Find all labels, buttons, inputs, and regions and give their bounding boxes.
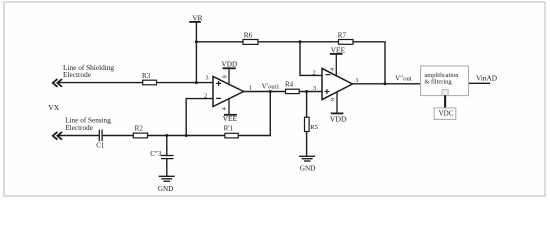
resistor R6 — [243, 30, 258, 44]
svg-text:R'1: R'1 — [224, 125, 234, 133]
svg-text:VinAD: VinAD — [476, 73, 497, 82]
wire to U1 pin2 — [186, 99, 213, 136]
svg-text:& filtering: & filtering — [424, 79, 452, 86]
capacitor C1 — [96, 130, 105, 150]
capacitor C"3 — [150, 150, 173, 158]
svg-text:8: 8 — [331, 98, 337, 101]
wire shielding line left — [57, 82, 143, 84]
svg-text:GND: GND — [158, 185, 174, 193]
svg-text:R5: R5 — [310, 124, 318, 131]
border frame — [4, 2, 545, 196]
wire C1 to R2 — [102, 135, 133, 137]
svg-text:R4: R4 — [285, 81, 294, 89]
svg-text:R2: R2 — [135, 124, 144, 132]
junction VR top net — [195, 40, 198, 43]
svg-text:V″out: V″out — [395, 75, 412, 83]
wire VR stem down to shield net — [195, 22, 197, 83]
svg-text:1: 1 — [355, 77, 358, 84]
svg-text:VX: VX — [48, 103, 59, 112]
junction R6 right / U2 pin2 branch — [299, 40, 302, 43]
resistor R4 — [285, 81, 299, 94]
junction V"out / R7 — [384, 82, 387, 85]
svg-text:VDC: VDC — [439, 110, 454, 118]
resistor R5 — [305, 117, 319, 131]
svg-text:R3: R3 — [142, 72, 151, 80]
wire sensing line left — [57, 135, 99, 137]
wire U2 output to amp box — [352, 83, 420, 85]
junction R4/R5/U2 pin3 — [305, 90, 308, 93]
wire node to C"3 — [166, 136, 168, 156]
svg-text:VDD: VDD — [330, 114, 347, 123]
U2 VDD supply — [330, 92, 347, 123]
wire R5 to ground — [306, 132, 308, 157]
svg-text:2: 2 — [312, 70, 315, 77]
wire top net VR junction to R6 — [196, 41, 243, 43]
wire R6 to R7 — [258, 41, 339, 43]
ground under C"3 — [159, 176, 175, 181]
junction shield net / VR stem — [195, 81, 198, 84]
svg-text:R6: R6 — [244, 30, 253, 39]
svg-text:V′out1: V′out1 — [262, 83, 280, 91]
svg-text:Electrode: Electrode — [63, 70, 91, 79]
VR power node — [189, 14, 202, 23]
op-amp U2 — [322, 68, 352, 99]
VDC block — [434, 108, 456, 120]
wire amp box to VinAD — [469, 82, 491, 84]
wire node to R5 — [306, 92, 308, 118]
resistor R2 — [133, 124, 147, 138]
resistor R'1 — [224, 125, 239, 138]
connector arrow shielding electrode — [53, 79, 62, 87]
junction U1 pin2 branch — [185, 134, 188, 137]
svg-text:1: 1 — [249, 85, 252, 92]
U1 VDD supply — [222, 60, 238, 85]
port square on amp block — [442, 90, 448, 96]
junction C"3 on sensing net — [165, 134, 168, 137]
op-amp U1 — [213, 77, 244, 107]
U2 VEE supply — [330, 45, 346, 76]
wire R'1 to V'out1 vertical — [238, 92, 270, 136]
svg-text:C″3: C″3 — [150, 150, 162, 158]
connector arrow sensing electrode — [53, 132, 62, 140]
wire node down to U2 pin2 — [300, 42, 322, 76]
svg-text:VEE: VEE — [331, 45, 346, 54]
junction V'out1 — [269, 90, 272, 93]
ground under R5 — [299, 156, 315, 161]
svg-text:C1: C1 — [96, 141, 105, 149]
svg-text:8: 8 — [223, 75, 229, 78]
svg-text:4: 4 — [222, 107, 228, 110]
svg-text:GND: GND — [300, 165, 316, 173]
wire R3 to U1 pin3 — [157, 82, 214, 84]
wire U1 output to R4 — [244, 91, 286, 93]
wire R7 to output corner — [353, 42, 385, 84]
svg-text:R7: R7 — [338, 32, 347, 40]
wire R4 to U2 pin3 — [299, 91, 322, 93]
svg-text:4: 4 — [330, 68, 336, 71]
U1 VEE supply — [223, 99, 238, 123]
svg-text:2: 2 — [204, 93, 207, 100]
wire amp block to VDC — [444, 95, 446, 108]
amplification & filtering block — [421, 66, 469, 96]
resistor R3 — [142, 72, 157, 85]
svg-text:VDD: VDD — [222, 60, 238, 69]
wire R2 to R'1 — [148, 135, 225, 137]
svg-text:Electrode: Electrode — [65, 124, 93, 132]
wire C"3 to ground — [166, 159, 168, 176]
resistor R7 — [338, 32, 353, 45]
